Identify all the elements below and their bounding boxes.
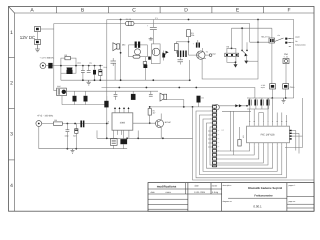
wire to connector pin bbox=[150, 106, 213, 108]
wire vertical 233.3 bbox=[232, 111, 234, 155]
svg-text:10k: 10k bbox=[191, 34, 194, 37]
wire terminal to bus bbox=[41, 28, 54, 30]
dark cap below IC bbox=[120, 139, 127, 144]
outermost wrap wire bbox=[193, 107, 315, 180]
svg-text:12V DC: 12V DC bbox=[20, 35, 35, 40]
dark cap at 198 bbox=[197, 96, 204, 107]
wire between terminals bbox=[37, 32, 39, 40]
transistor T3 bbox=[152, 48, 160, 56]
resistor R7 near PIC bbox=[238, 127, 241, 146]
switch labels bbox=[289, 39, 291, 47]
wire loop box right T3 bbox=[151, 44, 160, 64]
wire vertical at 120.6 bbox=[120, 20, 122, 80]
junction at 258,42.2 bbox=[257, 41, 259, 43]
svg-text:3: 3 bbox=[10, 132, 13, 138]
wire to relay left bbox=[250, 41, 269, 43]
wire long vertical at 106.8 bbox=[106, 20, 108, 139]
connector pins bbox=[213, 106, 217, 167]
svg-text:C: C bbox=[132, 8, 136, 14]
wire vertical 230.4 bbox=[229, 111, 231, 151]
nested bus wires connector to PIC bbox=[196, 111, 286, 178]
svg-text:modifications: modifications bbox=[157, 184, 177, 188]
wires below giris bbox=[285, 89, 287, 98]
svg-text:BC547: BC547 bbox=[165, 121, 172, 124]
cap row2 d dark bbox=[131, 91, 136, 100]
PIC top pin wires bbox=[250, 109, 287, 123]
rail below IC bbox=[97, 137, 193, 139]
capacitor left of loop bbox=[111, 58, 117, 66]
wire n3 bbox=[203, 119, 277, 171]
relay RL1 bbox=[261, 35, 274, 43]
PIC top pins bbox=[250, 123, 287, 126]
wire at 138.2 up bbox=[137, 131, 139, 139]
crystal X1 bbox=[110, 139, 117, 146]
svg-text:5V1: 5V1 bbox=[104, 66, 107, 69]
column letters A-F bbox=[30, 8, 290, 14]
svg-text:On: On bbox=[278, 34, 280, 37]
dark element left of T3 loop bbox=[148, 57, 151, 60]
vertical dividers bbox=[184, 183, 186, 194]
svg-text:pages: 1: pages: 1 bbox=[289, 184, 296, 187]
wire vertical 115 bbox=[114, 63, 116, 80]
connector mid pin stubs bbox=[208, 131, 212, 147]
wire n2 bbox=[200, 115, 282, 175]
svg-text:seçici: seçici bbox=[295, 35, 300, 38]
ground symbol row3 bbox=[71, 149, 75, 154]
svg-text:1M: 1M bbox=[54, 119, 57, 122]
column tick marks top border bbox=[57, 7, 264, 14]
svg-text:Out: Out bbox=[213, 53, 217, 56]
input jack J1 bbox=[40, 57, 54, 69]
base loop rectangle bbox=[227, 48, 236, 62]
PIC right pins bbox=[290, 130, 292, 140]
right column lines bbox=[287, 196, 314, 198]
svg-text:On: On bbox=[295, 40, 297, 43]
connector X1 12V terminal lower bbox=[35, 40, 41, 45]
resistor R5 vertical bbox=[148, 109, 155, 116]
wire relay coil feed bbox=[231, 28, 233, 48]
transistor Q3 bbox=[156, 120, 172, 128]
filter capacitor Ca bbox=[81, 66, 85, 81]
transistor Q1 bbox=[189, 51, 209, 60]
wire rail left of PIC bbox=[222, 110, 251, 112]
IC U2 bottom pins bbox=[114, 130, 129, 139]
cap row2 e bbox=[149, 91, 153, 96]
filter capacitor Cb bbox=[87, 66, 91, 73]
svg-text:RELAY 5V: RELAY 5V bbox=[261, 35, 270, 38]
svg-text:diagram no:: diagram no: bbox=[223, 200, 233, 203]
PIC bottom pin stubs bbox=[249, 143, 251, 146]
svg-text:4060: 4060 bbox=[120, 121, 126, 124]
resistor oval on loop bottom bbox=[133, 55, 140, 58]
input jack J2 bbox=[36, 121, 42, 127]
ground below lower terminal bbox=[35, 45, 40, 52]
svg-text:D: D bbox=[184, 8, 188, 14]
wire SP2 to connector bbox=[167, 99, 184, 101]
ground symbol small above bbox=[149, 37, 154, 40]
wire 4060 left corner bbox=[96, 130, 98, 138]
fuse F1 bbox=[126, 18, 135, 26]
wire direct d1 bbox=[217, 146, 250, 151]
diode D2 bbox=[162, 51, 165, 61]
zener diode Dz bbox=[99, 66, 102, 81]
ground symbol on bus bbox=[87, 80, 91, 85]
+5 box bbox=[261, 84, 276, 89]
electrolytic caps dark pair inside loop bbox=[135, 42, 141, 48]
capacitor C2 electrolytic dark bbox=[193, 40, 200, 48]
wire loop box around T2 bbox=[129, 45, 148, 57]
IC U2 4060 bbox=[107, 113, 133, 130]
resistor R1 vertical bbox=[187, 30, 195, 37]
svg-text:14.01.2006: 14.01.2006 bbox=[194, 191, 206, 194]
row tick marks left border bbox=[9, 58, 15, 160]
svg-text:name: name bbox=[166, 191, 172, 194]
svg-text:u.c: u.c bbox=[222, 130, 224, 132]
display connector K1 bbox=[212, 105, 219, 167]
rail row2 bbox=[62, 104, 107, 106]
dark capacitor to ground mid bbox=[143, 57, 147, 80]
frame corner miter top-left bbox=[9, 7, 15, 14]
wire direct d4 bbox=[217, 146, 264, 163]
diode hang b bbox=[73, 124, 78, 138]
svg-text:frekansmetre: frekansmetre bbox=[295, 44, 306, 47]
PIC right pin wires bbox=[292, 131, 303, 154]
svg-text:C9: C9 bbox=[201, 97, 203, 100]
svg-text:Out: Out bbox=[284, 53, 288, 56]
+5V rail bbox=[61, 65, 103, 67]
junction row3 at 106.8 bbox=[106, 123, 108, 125]
Giris box bbox=[283, 84, 296, 89]
svg-text:+F G - 100 kHz: +F G - 100 kHz bbox=[37, 114, 54, 117]
ground rail row3 bbox=[39, 148, 127, 150]
emitter terminal bbox=[203, 58, 206, 60]
svg-text:page no:: page no: bbox=[289, 201, 296, 203]
transistor Q4 bbox=[241, 27, 258, 64]
svg-text:2: 2 bbox=[10, 81, 13, 87]
diode pair on wire bbox=[217, 105, 247, 107]
diode D1 bbox=[46, 63, 61, 69]
transistor T2 circle bbox=[135, 49, 141, 55]
wire vertical Q1 zone to bus bbox=[189, 60, 191, 80]
switch contacts bbox=[275, 34, 295, 43]
wire direct d3 bbox=[217, 146, 259, 159]
capacitor dark row2 b bbox=[84, 91, 88, 104]
resistor R3 on loop top bbox=[65, 54, 71, 60]
IC U3 PIC 16F628 bbox=[242, 126, 290, 143]
filter capacitor Cc dark bbox=[93, 66, 96, 81]
IC U2 top pins bbox=[115, 109, 129, 113]
diode arrows right of T3 bbox=[163, 51, 169, 56]
row numbers 1-4 bbox=[10, 30, 13, 189]
regulator loop box bbox=[61, 58, 76, 73]
dark electrolytic at 82 bbox=[80, 121, 84, 128]
wire 12V vertical feed left bbox=[53, 24, 55, 91]
capacitor C5 below bbox=[178, 57, 184, 65]
long rail mid bbox=[102, 88, 255, 99]
wire base run bbox=[176, 41, 188, 43]
svg-text:Otomatik Kademe Seçimli: Otomatik Kademe Seçimli bbox=[248, 186, 283, 190]
stubs to ground rail bbox=[113, 145, 115, 148]
capacitor dark row2 a bbox=[73, 91, 77, 104]
svg-text:4k7: 4k7 bbox=[153, 112, 156, 115]
svg-text:100n: 100n bbox=[77, 62, 81, 65]
svg-text:Frekansmetre: Frekansmetre bbox=[254, 193, 273, 197]
svg-text:name: name bbox=[212, 185, 218, 188]
wire from B2 right bbox=[66, 90, 158, 92]
ground bus row1 bbox=[61, 79, 190, 81]
oscillator box B2 bbox=[57, 88, 67, 96]
speaker SP2 bbox=[160, 93, 167, 101]
capacitor C1 at top bbox=[147, 17, 158, 44]
speaker SP1 bbox=[113, 43, 126, 51]
connector X1 12V terminal upper bbox=[35, 27, 41, 32]
svg-text:100p: 100p bbox=[65, 135, 69, 138]
svg-text:K.Exip: K.Exip bbox=[212, 191, 219, 194]
wire L corner up at 257 bbox=[202, 20, 258, 80]
regulator U1 dark bbox=[67, 68, 73, 71]
wire 12V top run bbox=[54, 23, 250, 25]
wire B2 bottom to rail bbox=[61, 96, 63, 105]
wire direct d2 bbox=[217, 146, 254, 155]
horizontal lines left part bbox=[148, 188, 222, 190]
wire drop at 249.7 bbox=[249, 24, 251, 43]
cap hang a bbox=[65, 124, 70, 138]
svg-text:description: description bbox=[223, 184, 232, 187]
svg-text:F: F bbox=[287, 8, 290, 14]
ground below bbox=[282, 98, 286, 103]
inner frame left line bbox=[14, 13, 16, 211]
cap row2 c bbox=[114, 91, 118, 100]
svg-text:IC1: IC1 bbox=[107, 121, 110, 124]
wire n5 bbox=[210, 127, 268, 165]
collector wire up from Q1 bbox=[202, 48, 204, 52]
middle divider bbox=[228, 197, 287, 199]
svg-text:0.00.1: 0.00.1 bbox=[253, 204, 262, 208]
svg-text:1: 1 bbox=[10, 30, 13, 36]
inner frame top line bbox=[15, 12, 315, 14]
resistor R4 bbox=[53, 119, 62, 125]
svg-text:MIC: MIC bbox=[122, 44, 126, 47]
wire n1 bbox=[196, 111, 286, 178]
wire top bus second bbox=[107, 19, 294, 21]
wire n4 bbox=[207, 123, 273, 168]
resistor R2 bbox=[174, 44, 178, 51]
connector pin number marks bbox=[210, 107, 219, 151]
svg-text:4: 4 bbox=[10, 183, 13, 189]
wire IC to Q3 bbox=[133, 122, 156, 124]
vertical to PIC bbox=[271, 98, 273, 123]
title block bbox=[148, 183, 314, 212]
svg-text:10u: 10u bbox=[89, 62, 92, 65]
resistor R6 bbox=[225, 46, 239, 57]
junction dots top bus bbox=[120, 19, 122, 21]
svg-text:+ 12 V 400mA: + 12 V 400mA bbox=[40, 57, 54, 60]
svg-text:PIC 16F628: PIC 16F628 bbox=[261, 134, 275, 137]
capacitor pair C3 C4 bbox=[177, 51, 186, 58]
svg-text:IC2: IC2 bbox=[242, 135, 245, 138]
ground below R6 loop bbox=[234, 62, 238, 67]
capacitor dark at 106 bbox=[104, 96, 108, 107]
decoupling caps row dark bbox=[248, 98, 270, 106]
